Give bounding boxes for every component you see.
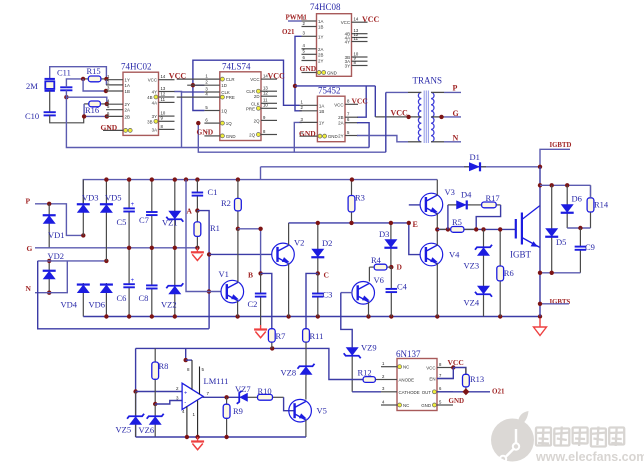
svg-text:P: P [26,197,31,206]
LM111 balance pins [185,348,187,360]
wire C10 bottom to pin line [50,115,84,122]
diode VD4 [82,283,84,317]
svg-text:C3: C3 [323,290,333,300]
wire 2Y to transformer bottom [357,136,408,142]
svg-text:3A: 3A [152,127,157,132]
svg-text:R17: R17 [486,193,500,203]
svg-text:VCC: VCC [341,20,350,25]
svg-text:C11: C11 [57,68,71,78]
capacitor C10 [44,111,56,113]
watermark text [535,427,552,447]
wire IGBTS stub [540,303,569,305]
IC U1 74HC02 [123,72,159,135]
svg-text:VCC: VCC [250,77,259,82]
svg-text:14: 14 [354,17,359,22]
svg-text:O21: O21 [492,387,505,395]
wire O21 vertical [295,36,302,111]
svg-text:1A: 1A [318,19,323,24]
LM111 left rail [135,348,137,437]
wire P [35,204,83,236]
junction D6 top [565,183,569,187]
svg-text:EN: EN [429,377,435,382]
svg-text:TRANS: TRANS [413,76,443,86]
wire gate line [437,228,516,230]
diode D4 [448,204,471,206]
junction D5 bottom [550,271,554,275]
wire CLK horizontal to 74LS74 [174,91,204,94]
watermark logo [491,411,534,462]
wire N [35,261,67,293]
junction P-VD1 [47,202,51,206]
svg-text:R15: R15 [87,66,101,76]
wire VD mid rail [38,260,107,262]
diode D3 [390,223,392,267]
wire V4 collector [436,229,438,246]
junction node C [316,271,320,275]
resistor R16 [84,103,89,105]
junction IGBTS [538,302,542,306]
svg-text:1Y: 1Y [318,34,323,39]
diode D2 [317,223,319,274]
transistor V5 [289,399,312,422]
junction C11 bottom [64,95,68,99]
IC U4 75452 [317,96,345,142]
svg-text:VCC: VCC [352,96,368,105]
wire A jog down [197,211,209,329]
wire V1 emitter [237,301,239,317]
svg-text:PRE: PRE [246,106,255,111]
svg-text:1B: 1B [125,89,130,94]
svg-text:R16: R16 [85,105,99,115]
svg-text:1B: 1B [319,109,324,114]
transistor V2 [272,243,295,266]
resistor R4 [369,266,374,268]
junction push-pull node [435,227,439,231]
wire IGBTD stub [540,149,570,167]
diode VD6 [105,283,107,317]
svg-text:C10: C10 [25,111,39,121]
junction R15 left [81,77,85,81]
svg-text:1Q: 1Q [226,121,232,126]
top bus junctions [127,177,131,181]
capacitor C11 [60,86,72,88]
svg-text:+: + [131,202,135,208]
junction R16 right [105,102,109,106]
zener VZ7 [239,396,253,398]
svg-text:4Y: 4Y [345,40,350,45]
transistor V6 [352,282,375,305]
wire R11 to VZ8 [305,342,307,364]
junction 74LS74 pin6 [196,121,200,125]
resistor R14 [590,185,592,198]
svg-text:V6: V6 [374,275,384,285]
diode VD1 [48,204,50,248]
svg-text:C5: C5 [117,217,127,227]
svg-text:E: E [413,220,418,229]
wire V3 base [409,204,420,206]
junction output-R9 [224,395,228,399]
capacitor C7 [151,180,153,212]
capacitor C4 [390,267,392,289]
wire V2 emitter [288,264,290,317]
junction VD2-N [47,291,51,295]
junction R6 top [498,227,502,231]
junction bus VD5 [104,177,108,181]
wire pin2 drop [105,80,107,85]
svg-text:VD5: VD5 [105,193,122,203]
svg-text:GND: GND [226,134,236,139]
resistor R11 [305,328,307,330]
wire G bus [35,247,197,249]
junction D1-IGBT [538,165,542,169]
zener VZ3 [483,229,485,270]
wire OUT line [437,391,490,393]
diode D6 [566,185,568,228]
svg-text:R10: R10 [258,386,272,396]
svg-text:R12: R12 [358,368,372,378]
wire R2 to B [238,229,261,274]
wire R15 net [66,79,83,87]
wire inverting input jog [155,401,182,405]
wire PWM1 to pin1 [288,20,302,22]
svg-text:VZ9: VZ9 [361,343,377,353]
svg-text:IGBTS: IGBTS [550,299,571,306]
wire bus jog to D1 rail [260,167,262,180]
svg-text:13: 13 [161,86,166,91]
svg-text:VZ3: VZ3 [464,261,480,271]
wire E base rail [409,223,420,255]
svg-text:D2: D2 [322,238,332,248]
wire N outer loop [38,261,209,329]
svg-text:4Y: 4Y [152,90,157,95]
svg-text:R1: R1 [210,223,220,233]
transformer core [423,91,425,144]
zener VZ5 [135,392,137,438]
junction 1D branch [191,83,195,87]
svg-text:11: 11 [161,97,166,102]
svg-text:VD6: VD6 [89,300,106,310]
svg-text:12: 12 [161,91,166,96]
svg-text:2Y: 2Y [318,59,323,64]
svg-text:NC: NC [403,403,409,408]
svg-text:R14: R14 [594,200,609,210]
svg-text:1B: 1B [318,25,323,30]
svg-text:VZ8: VZ8 [281,368,297,378]
svg-text:3B: 3B [147,119,152,124]
zener VZ8 [305,365,307,377]
svg-text:10: 10 [263,103,268,108]
zener VZ9 [351,347,353,392]
junction C9 top [578,226,582,230]
svg-text:4A: 4A [152,100,157,105]
svg-text:VCC: VCC [334,102,343,107]
zener VZ6 [154,404,156,437]
junction emitter rail [538,271,542,275]
junction R7 bottom [270,346,274,350]
svg-text:1A: 1A [125,83,130,88]
wire LM111 output [203,395,238,398]
svg-text:GND: GND [101,123,118,132]
resistor R17 [471,204,482,206]
wire D6-R14 bottom link [567,227,590,229]
wire branch to 75452 pin7 [357,86,366,117]
wire V5 emitter [305,420,307,437]
svg-text:VCC: VCC [426,366,435,371]
svg-text:GND: GND [197,127,214,136]
svg-text:IGBTD: IGBTD [550,142,572,149]
wire to noninverting input [136,391,183,393]
junction coupling [258,227,262,231]
svg-text:V3: V3 [445,187,455,197]
junction E rail [407,221,411,225]
svg-text:R5: R5 [452,217,462,227]
svg-text:R3: R3 [355,193,365,203]
ground below R1 [196,248,198,253]
junction R8 bottom [153,402,157,406]
junction center tap left [406,115,410,119]
junction pin3 [104,89,108,93]
ground IGBT emitter [539,318,541,327]
IGBT Q1 symbol [515,219,517,239]
wire L2 Q-bar line [198,123,385,152]
wire 75452 pin3 riser [294,122,302,152]
svg-text:www.elecfans.com: www.elecfans.com [535,450,644,464]
junction A-V1base [207,289,211,293]
wire D4 branch up [447,205,449,230]
svg-text:G: G [453,109,459,118]
svg-text:CLR: CLR [226,77,235,82]
wire V1 base feed [186,180,221,292]
oscillator top loop wire [50,67,107,79]
junction D2 top [316,221,320,225]
resistor R12 [362,379,364,381]
svg-text:O21: O21 [282,28,295,36]
wire V6 base to VZ9 [341,293,352,347]
svg-text:2Y: 2Y [338,134,343,139]
svg-text:C6: C6 [117,293,127,303]
svg-text:2A: 2A [338,121,343,126]
svg-text:R8: R8 [159,361,169,371]
wire V2 base line [209,253,272,255]
resistor R9 [226,397,228,404]
svg-text:3Y: 3Y [345,64,350,69]
svg-text:C8: C8 [139,293,149,303]
svg-text:R13: R13 [470,374,484,384]
bottom bus junctions [104,314,108,318]
svg-text:V5: V5 [317,406,327,416]
svg-text:R6: R6 [504,268,514,278]
svg-text:2Q: 2Q [249,133,255,138]
svg-text:D5: D5 [556,237,566,247]
svg-text:C4: C4 [397,282,408,292]
resistor R1 [196,211,198,222]
resistor R3 [351,180,353,196]
capacitor C1 [196,180,198,193]
capacitor C9 [579,228,581,247]
svg-text:R9: R9 [233,406,243,416]
svg-text:D6: D6 [572,194,582,204]
IC U3 74HC08 [317,14,352,77]
svg-text:2M: 2M [26,81,38,91]
wire O21 branch to transformer drive [295,85,375,87]
svg-text:D3: D3 [379,229,389,239]
junction VCC U6 [451,365,455,369]
capacitor C2 [260,273,262,293]
wire V4 emitter [436,263,438,316]
wire CLK riser [181,92,183,148]
bottom rail junctions [185,435,189,439]
svg-text:VCC: VCC [362,15,380,24]
svg-text:+: + [131,278,135,284]
svg-text:C2: C2 [248,299,258,309]
resistor R13 [465,368,467,375]
zener VZ1 [174,180,176,248]
svg-text:12: 12 [263,91,268,96]
wire V3 emitter [436,213,438,229]
capacitor C8 [151,248,153,286]
svg-text:+: + [184,390,187,396]
resistor R5 [440,228,451,230]
resistor R10 [252,396,258,398]
resistor R15 [83,78,88,80]
bottom bus [83,316,540,318]
junction P mid rail [81,233,85,237]
capacitor C6 [128,248,130,284]
svg-text:C7: C7 [139,215,149,225]
junction node D [389,265,393,269]
wire VZ4 to bus corner [483,316,485,318]
svg-text:74HC08: 74HC08 [310,2,341,12]
wire V6 emitter [368,302,370,317]
wire V3 collector [436,180,438,196]
svg-text:A: A [187,207,193,216]
wire 1D branch [193,84,205,86]
diode VD3 [82,180,84,236]
svg-text:ANODE: ANODE [399,378,415,383]
svg-text:V1: V1 [219,269,229,279]
wire C11 feedback to R16 right [66,90,106,104]
transistor V4 [420,243,443,266]
junction R2 bottom [236,227,240,231]
wire R10 to V5 base [284,397,295,410]
junction O21 branch [293,84,297,88]
wire D5 D6 top rail [540,184,591,186]
junction R3 bottom [349,221,353,225]
svg-text:N: N [453,134,459,143]
wire 2A to L1 [357,123,369,148]
resistor R7 [271,328,273,330]
svg-text:VD1: VD1 [48,230,65,240]
svg-text:NC: NC [403,365,409,370]
svg-text:GND: GND [449,397,465,405]
svg-text:VCC: VCC [391,109,409,118]
junction D4 branch [446,227,450,231]
wire branch to VCC center tap [374,86,376,117]
wire VCC to R13 [453,368,466,375]
svg-text:14: 14 [161,74,166,79]
svg-text:2Y: 2Y [125,102,130,107]
wire VCC to EN [437,368,453,379]
svg-text:VZ2: VZ2 [161,300,177,310]
junction node B [258,271,262,275]
junction VZ3 tap [481,227,485,231]
svg-text:R11: R11 [310,331,324,341]
svg-text:G: G [27,244,33,253]
svg-text:VCC: VCC [448,358,464,367]
junction D3 top [389,221,393,225]
svg-text:2B: 2B [338,115,343,120]
svg-text:VCC: VCC [268,71,286,80]
resistor R8 [154,348,156,362]
op-amp U5 LM111 [182,383,203,409]
svg-text:GND: GND [299,129,316,138]
wire B to R7 [261,273,272,328]
wire VZ8 to V5 collector [305,376,307,399]
transistor V1 [221,280,244,303]
wire 74LS74 Qbar to transformer top [385,92,387,152]
junction mid rail VD5 [104,259,108,263]
junction R17 return [474,227,478,231]
svg-text:D1: D1 [470,152,480,162]
svg-text:PRE: PRE [226,95,235,100]
diode VD2 [48,261,50,293]
wire D1 rail [261,166,541,168]
svg-text:1Y: 1Y [319,120,324,125]
svg-text:11: 11 [354,36,359,41]
wire R4 to V6 collector [368,267,370,281]
diode D5 [551,185,553,272]
junction R16 loop left [82,114,86,118]
wire R15-left to pin3 [83,79,106,91]
svg-text:C: C [324,271,329,280]
transformer terminals [408,91,421,93]
wire V6 base [341,292,353,294]
svg-text:2B: 2B [125,114,130,119]
wire V1 collector [237,229,239,283]
svg-text:R2: R2 [221,198,231,208]
ground LM111 [197,437,199,442]
wire emitter lower rail [540,272,580,274]
wire clock line L1 [66,97,369,147]
svg-text:GND: GND [327,71,337,76]
svg-text:V4: V4 [449,250,460,260]
svg-text:R7: R7 [276,331,286,341]
svg-text:2A: 2A [318,47,323,52]
svg-text:P: P [453,84,458,93]
svg-text:D4: D4 [461,190,472,200]
svg-text:N: N [26,284,32,293]
svg-text:VZ5: VZ5 [116,425,132,435]
ground below C2 [260,325,262,330]
svg-text:4B: 4B [147,95,152,100]
wire R16 left loop to pin6 [84,104,107,117]
junction A-V2base [207,252,211,256]
svg-text:6N137: 6N137 [396,349,421,359]
junction VD1-VD2 [47,259,51,263]
svg-text:1A: 1A [319,103,324,108]
svg-text:VZ4: VZ4 [464,298,480,308]
main top bus [83,180,260,204]
IC U2 74LS74 [220,72,261,141]
svg-text:C1: C1 [208,187,218,197]
LM111 power pins [186,407,188,438]
wire V2 collector [288,223,290,245]
wire R17 return loop [476,205,500,229]
junction R15 right [104,77,108,81]
wire coupling rail [289,222,409,224]
svg-text:GND: GND [421,403,431,408]
svg-text:VZ6: VZ6 [139,425,155,435]
